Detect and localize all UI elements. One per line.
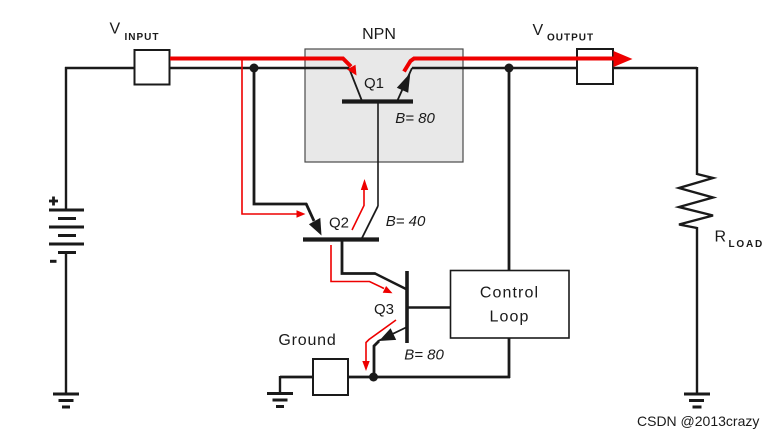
transistor Q1 emitter arrowhead: [397, 73, 411, 93]
svg-text:CSDN @2013crazy: CSDN @2013crazy: [637, 413, 759, 429]
transistor Q1 emitter diagonal: [397, 68, 412, 102]
svg-text:Q1: Q1: [364, 75, 384, 92]
svg-text:V: V: [533, 22, 544, 39]
wire Q2 emitter down-right to Q3: [342, 240, 376, 274]
transistor Q3 base bar (vertical): [405, 271, 409, 343]
battery plus label: [49, 197, 58, 206]
red arrowhead into Q3 collector: [383, 286, 393, 293]
junction node output branch: [505, 64, 514, 73]
red big arrowhead at output: [614, 51, 633, 67]
red arrowhead at ground node: [362, 361, 369, 371]
wire Q1 base down to Q2: [377, 102, 379, 206]
svg-text:R: R: [715, 229, 727, 246]
red current Q2 collector up: [352, 189, 364, 230]
transistor Q2 base arrowhead: [309, 218, 322, 236]
wire ground horizontal: [280, 376, 510, 379]
ground (center, ground box): [267, 394, 293, 407]
svg-text:INPUT: INPUT: [125, 32, 160, 43]
transistor Q1 collector diagonal: [349, 68, 362, 101]
wire control loop bottom to ground wire: [508, 338, 511, 378]
wire left vertical to battery: [65, 67, 67, 210]
svg-text:NPN: NPN: [362, 26, 396, 43]
wire Q3 base to control loop: [407, 306, 451, 308]
svg-text:B= 80: B= 80: [404, 347, 444, 364]
wire right vertical to resistor: [696, 67, 698, 175]
junction node input branch: [250, 64, 259, 73]
red current Q2 emitter to Q3: [331, 245, 384, 289]
wire input top-left horizontal: [65, 67, 349, 69]
ground (left, battery): [53, 394, 79, 407]
control loop box U1: [451, 271, 570, 339]
wire battery to ground: [65, 253, 67, 395]
red small arrowhead at Q2 base: [297, 210, 306, 218]
svg-text:B= 40: B= 40: [386, 213, 426, 230]
battery minus label: [50, 260, 57, 263]
svg-text:Q3: Q3: [374, 301, 394, 318]
V_INPUT probe box: [135, 50, 170, 85]
wire resistor to ground: [696, 227, 698, 394]
svg-text:Control: Control: [480, 285, 539, 302]
resistor RLOAD zigzag: [679, 174, 713, 228]
transistor Q2 collector diagonal: [362, 206, 378, 238]
wire ground left drop: [279, 376, 281, 393]
V_OUTPUT probe box: [577, 49, 613, 84]
battery B1: [49, 210, 84, 253]
red current path input (thick): [170, 59, 351, 67]
transistor Q3 emitter diagonal: [378, 327, 407, 341]
svg-text:Loop: Loop: [490, 309, 530, 326]
svg-text:LOAD: LOAD: [729, 239, 765, 250]
wire Q2 base diagonal: [306, 204, 314, 222]
svg-text:Q2: Q2: [329, 215, 349, 232]
transistor Q1 base bar: [342, 99, 413, 103]
transistor Q2 base bar: [303, 237, 379, 241]
wire input branch down to Q2 (thick): [254, 68, 307, 204]
junction node ground: [369, 373, 378, 382]
red arrowhead Q2 collector: [361, 179, 368, 190]
svg-text:Ground: Ground: [278, 332, 336, 349]
Ground probe box: [313, 359, 348, 395]
ground (right, load): [684, 394, 710, 407]
red current path Q1 emitter to output (thick): [404, 59, 616, 72]
wire Q3 emitter to ground node: [374, 341, 379, 377]
svg-text:V: V: [110, 21, 121, 38]
red current Q3 emitter to ground: [366, 320, 396, 362]
NPN gray region box: [305, 49, 463, 162]
wire diagonal into Q3 collector: [375, 274, 407, 290]
transistor Q3 emitter arrowhead: [379, 328, 396, 341]
red arrowhead into Q1 collector: [347, 65, 357, 76]
wire output top horizontal: [412, 67, 697, 69]
wire output junction down to control loop: [508, 68, 511, 271]
red thin branch current to Q2 base: [242, 59, 298, 214]
svg-text:B= 80: B= 80: [395, 110, 435, 127]
svg-text:OUTPUT: OUTPUT: [547, 33, 594, 44]
